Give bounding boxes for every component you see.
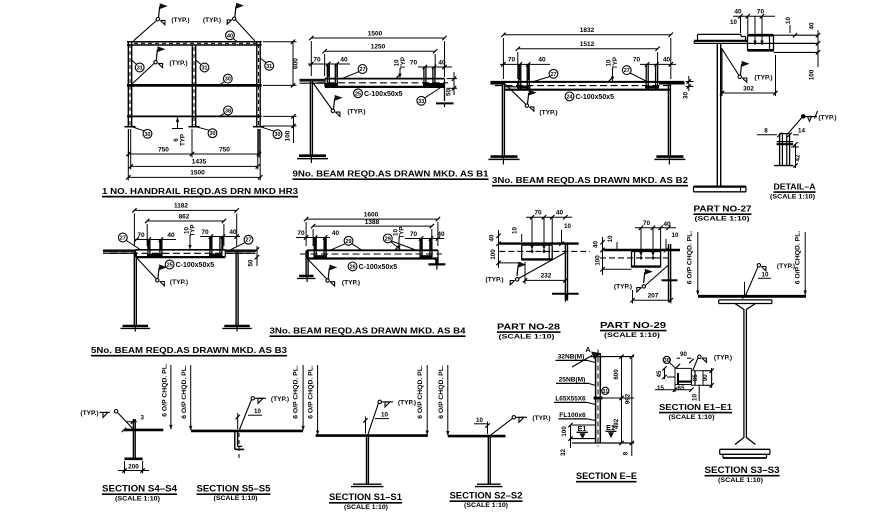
svg-text:SECTION E–E: SECTION E–E <box>576 471 637 481</box>
svg-text:200: 200 <box>128 463 139 470</box>
part 28 channel <box>521 245 523 260</box>
section S5 angle below <box>234 431 236 449</box>
svg-text:10: 10 <box>672 232 679 239</box>
balloon 30 bottom left <box>143 129 152 138</box>
dim 1435 <box>130 129 132 170</box>
svg-text:29: 29 <box>346 239 352 245</box>
svg-text:SECTION S1–S1: SECTION S1–S1 <box>329 492 402 502</box>
svg-text:(TYP.): (TYP.) <box>170 279 188 286</box>
balloon 27 B2 left <box>549 69 558 78</box>
dim 1250 beam B1 <box>324 54 326 76</box>
section S1 top plate <box>316 434 428 437</box>
svg-text:10: 10 <box>730 19 737 26</box>
column B3 right base <box>224 325 250 327</box>
svg-text:70: 70 <box>633 57 641 64</box>
svg-text:40: 40 <box>663 221 671 228</box>
weld flag typ B3 <box>136 258 156 280</box>
svg-text:70: 70 <box>534 210 542 217</box>
svg-text:50: 50 <box>248 259 255 266</box>
balloon 29 B4 right <box>383 234 392 243</box>
handrail HR3 third rail <box>127 115 262 117</box>
part 29 channel <box>631 252 633 268</box>
svg-text:31: 31 <box>137 66 143 72</box>
svg-text:70: 70 <box>410 231 418 238</box>
svg-text:1388: 1388 <box>365 219 380 226</box>
part 28 diagonal brace line <box>519 253 566 279</box>
svg-text:40: 40 <box>332 230 340 237</box>
handrail HR3 right post <box>256 42 258 128</box>
svg-text:SECTION E1–E1: SECTION E1–E1 <box>659 403 733 412</box>
svg-text:A: A <box>585 345 590 354</box>
svg-text:600: 600 <box>613 369 620 380</box>
column B4 left <box>305 250 307 275</box>
beam B1 right end support <box>444 87 446 101</box>
dim 100 right of handrail <box>263 115 297 117</box>
svg-text:70: 70 <box>757 9 765 16</box>
beam B3 left end plate <box>103 249 136 252</box>
section S5 top plate <box>191 430 303 433</box>
svg-text:600: 600 <box>293 58 300 69</box>
svg-text:862: 862 <box>179 213 190 220</box>
beam B2 stiffeners left <box>518 64 520 89</box>
svg-text:10: 10 <box>607 235 614 242</box>
svg-text:992: 992 <box>624 393 631 404</box>
svg-text:10: 10 <box>692 394 699 401</box>
dim 1500 <box>127 129 129 181</box>
column B1 left <box>309 82 311 155</box>
column B3 right <box>235 252 237 325</box>
handrail HR3 left post <box>127 42 129 128</box>
part 27 column web <box>716 43 718 186</box>
svg-text:3No. BEAM REQD.AS DRAWN MKD. A: 3No. BEAM REQD.AS DRAWN MKD. AS B2 <box>492 175 688 185</box>
dim 1500 beam B1 <box>310 41 312 76</box>
svg-text:(SCALE 1:10): (SCALE 1:10) <box>344 504 388 511</box>
svg-text:3No. BEAM REQD.AS DRAWN MKD. A: 3No. BEAM REQD.AS DRAWN MKD. AS B4 <box>270 325 466 335</box>
dim 32 section E-E <box>570 439 572 448</box>
svg-text:(TYP.): (TYP.) <box>342 280 360 287</box>
beam B3 stiffeners right <box>209 237 211 258</box>
svg-text:TYP: TYP <box>190 224 197 236</box>
svg-text:TYP: TYP <box>612 57 619 69</box>
detail A channel piece <box>779 134 781 166</box>
weld flag typ inner <box>154 61 157 64</box>
section E-E top line <box>596 356 634 358</box>
column B3 left <box>133 252 135 325</box>
column B4 right base <box>428 263 445 265</box>
svg-text:(TYP.): (TYP.) <box>398 400 416 407</box>
part 29 top plate <box>603 249 680 251</box>
svg-text:10: 10 <box>785 17 792 24</box>
weld flag typ top-right <box>233 17 236 20</box>
section E-E left step lines <box>571 424 596 426</box>
svg-text:40: 40 <box>227 33 233 39</box>
section S2 weld flag typ <box>512 416 515 419</box>
part 27 channel top extension line <box>774 34 819 36</box>
dim 207 part 29 <box>632 290 634 304</box>
svg-text:24: 24 <box>567 94 573 100</box>
svg-text:29: 29 <box>385 236 391 242</box>
svg-text:42: 42 <box>795 154 802 161</box>
dim 600 right of handrail <box>263 41 297 43</box>
dim 750 right <box>258 129 260 158</box>
svg-text:1 NO. HANDRAIL REQD.AS DRN MKD: 1 NO. HANDRAIL REQD.AS DRN MKD HR3 <box>102 186 298 196</box>
balloon 27 B2 right <box>622 66 631 75</box>
part 27 top plate <box>694 40 747 42</box>
svg-text:30: 30 <box>275 132 281 138</box>
weld flag typ detail A <box>801 115 805 119</box>
svg-text:(SCALE 1:10): (SCALE 1:10) <box>695 216 750 223</box>
svg-text:207: 207 <box>648 293 659 300</box>
section E1 plate <box>691 371 703 386</box>
svg-text:TYP: TYP <box>399 226 406 238</box>
svg-text:40: 40 <box>809 22 816 29</box>
section S3 web <box>735 304 744 445</box>
section S1 web <box>366 436 368 485</box>
dim 10 section E1 <box>698 385 700 402</box>
svg-text:70: 70 <box>508 57 516 64</box>
svg-text:40: 40 <box>538 57 546 64</box>
part 29 vertical member <box>668 244 670 302</box>
dim 750 left <box>128 129 130 158</box>
svg-text:70: 70 <box>137 232 145 239</box>
part 27 channel bottom extension line <box>774 51 819 53</box>
svg-text:40: 40 <box>167 232 175 239</box>
svg-text:27: 27 <box>624 68 630 74</box>
dim 862 beam B3 <box>146 224 148 246</box>
dim 42 detail A <box>791 146 799 148</box>
dim 1512 beam B2 <box>517 52 519 79</box>
beam B4 channel C-100x50x5 <box>307 249 438 251</box>
part 29 bolts <box>639 256 643 260</box>
svg-text:30: 30 <box>225 77 231 83</box>
svg-text:9No. BEAM REQD.AS DRAWN MKD. A: 9No. BEAM REQD.AS DRAWN MKD. AS B1 <box>293 168 489 178</box>
svg-text:90: 90 <box>703 374 709 381</box>
svg-text:45: 45 <box>656 370 663 377</box>
svg-text:32NB(M): 32NB(M) <box>558 353 585 360</box>
svg-text:27: 27 <box>360 67 366 73</box>
svg-text:(TYP.): (TYP.) <box>714 355 732 362</box>
svg-text:FL100x6: FL100x6 <box>559 412 586 419</box>
svg-text:25: 25 <box>167 263 173 269</box>
balloon 29 B4 left <box>344 236 353 245</box>
svg-text:(TYP.): (TYP.) <box>818 115 836 122</box>
dim 100 section E-E <box>570 425 572 439</box>
svg-text:DETAIL–A: DETAIL–A <box>774 181 816 191</box>
svg-text:100: 100 <box>561 426 568 437</box>
svg-text:10: 10 <box>476 417 483 424</box>
balloon 30 bottom right <box>273 130 282 139</box>
dim 70 40 right B2 <box>640 63 676 65</box>
svg-text:31: 31 <box>602 389 608 395</box>
svg-text:(TYP.): (TYP.) <box>169 60 187 67</box>
balloon 27 B3 left <box>118 233 127 242</box>
svg-text:27: 27 <box>551 72 557 78</box>
part 27 channel on top <box>748 34 774 37</box>
svg-text:C-100x50x5: C-100x50x5 <box>364 91 403 98</box>
svg-text:(SCALE 1:10): (SCALE 1:10) <box>669 414 715 421</box>
svg-text:6 O/P CHQD. PL.: 6 O/P CHQD. PL. <box>162 363 169 417</box>
section S2 top plate <box>448 435 506 438</box>
weld flag typ B1 <box>312 82 332 110</box>
balloon 25 B1 and channel label <box>354 89 363 98</box>
beam B3 stiffeners left <box>147 240 149 258</box>
svg-text:10: 10 <box>254 408 261 415</box>
svg-text:C-100x50x5: C-100x50x5 <box>359 264 398 271</box>
column B3 left base <box>123 325 149 327</box>
weld flag typ part 27 <box>722 49 739 76</box>
svg-text:100: 100 <box>285 130 292 141</box>
beam B1 left end plate <box>300 79 326 82</box>
svg-text:302: 302 <box>743 85 754 92</box>
section S4 bottom plate <box>125 457 143 460</box>
balloon 27 B3 right <box>244 235 253 244</box>
weld flag typ part 28 <box>517 265 518 276</box>
balloon 27 B1 <box>358 65 367 74</box>
part 28 bolts <box>530 249 534 253</box>
column B1 base plate <box>299 154 326 157</box>
svg-text:L65X55X6: L65X55X6 <box>555 395 586 402</box>
svg-text:1500: 1500 <box>190 170 205 177</box>
svg-text:C-100x50x5: C-100x50x5 <box>576 94 615 101</box>
part 29 cross bar <box>662 279 678 281</box>
svg-text:90: 90 <box>680 351 687 358</box>
svg-text:(TYP.): (TYP.) <box>171 17 189 24</box>
section S2 bottom flange <box>477 483 501 485</box>
column B2 left <box>501 83 503 156</box>
svg-text:(TYP.): (TYP.) <box>203 17 221 24</box>
balloon 31 right <box>265 61 274 70</box>
svg-text:70: 70 <box>313 56 321 63</box>
weld flag typ B2 <box>505 84 526 105</box>
svg-text:1250: 1250 <box>371 44 386 51</box>
svg-text:31: 31 <box>202 66 208 72</box>
svg-text:27: 27 <box>120 236 126 242</box>
dim 492 section E-E <box>621 398 623 443</box>
svg-text:31: 31 <box>266 64 272 70</box>
dim 70 40 right B4 <box>405 238 444 240</box>
svg-text:(TYP.): (TYP.) <box>347 109 365 116</box>
dim 70 40 right B3 <box>200 236 240 238</box>
section S4 web <box>132 419 134 459</box>
section E1 angle <box>675 368 691 384</box>
svg-text:33: 33 <box>418 99 424 105</box>
svg-text:PART NO-27: PART NO-27 <box>694 204 752 214</box>
dim 232 part 28 <box>524 262 526 284</box>
svg-text:40: 40 <box>593 241 600 248</box>
section E-E bottom line <box>572 442 634 444</box>
svg-text:6 O/P CHQD. PL.: 6 O/P CHQD. PL. <box>417 365 424 419</box>
svg-text:750: 750 <box>158 147 169 154</box>
weld flag typ part 29 <box>644 272 645 283</box>
balloon 31 section E-E <box>602 387 609 394</box>
svg-text:(SCALE 1:10): (SCALE 1:10) <box>770 193 815 200</box>
balloon 24 B2 and channel label <box>565 92 574 101</box>
beam B3 channel C-100x50x5 <box>136 249 226 251</box>
svg-text:40: 40 <box>556 210 564 217</box>
column B2 left base plate <box>491 155 518 158</box>
svg-text:(TYP.): (TYP.) <box>614 284 632 291</box>
svg-text:(SCALE 1:10): (SCALE 1:10) <box>499 334 555 341</box>
svg-text:(TYP.): (TYP.) <box>777 263 795 270</box>
beam B2 right end plate <box>659 81 684 85</box>
balloon 26 B4 and channel label <box>348 262 357 271</box>
dim 70 40 left B1 <box>308 63 350 65</box>
svg-text:27: 27 <box>246 238 252 244</box>
svg-text:1832: 1832 <box>580 27 595 34</box>
section E-E member <box>595 354 597 444</box>
weld flag typ top-left <box>156 18 159 21</box>
svg-text:(SCALE 1:10): (SCALE 1:10) <box>214 495 258 502</box>
dim 70 40 right B1 <box>418 66 452 68</box>
dim 600 section E-E <box>621 357 623 398</box>
svg-text:30: 30 <box>683 92 690 99</box>
svg-text:PART NO-28: PART NO-28 <box>497 321 560 331</box>
svg-text:8: 8 <box>764 128 768 135</box>
svg-text:32: 32 <box>560 449 567 456</box>
balloon 40 top rail <box>226 31 235 40</box>
svg-text:40: 40 <box>734 9 742 16</box>
svg-text:SECTION S4–S4: SECTION S4–S4 <box>102 483 177 493</box>
dim 302 part 27 <box>721 48 723 96</box>
column B4 left base <box>299 275 313 277</box>
svg-text:85: 85 <box>693 374 699 381</box>
svg-text:E1: E1 <box>606 423 615 432</box>
svg-text:(SCALE 1:10): (SCALE 1:10) <box>464 502 508 509</box>
column B2 right base plate <box>656 155 683 158</box>
dim 1832 beam B2 <box>502 38 504 79</box>
beam B4 stiffeners left <box>313 238 315 260</box>
handrail HR3 top rail <box>127 41 262 43</box>
dim 50 B1 right <box>447 78 458 80</box>
part 27 cap plate <box>698 33 742 35</box>
dim 8 section E-E <box>631 443 633 456</box>
weld flag typ B4 <box>308 260 327 280</box>
svg-text:(SCALE 1:10): (SCALE 1:10) <box>115 495 160 502</box>
svg-text:3: 3 <box>141 415 145 422</box>
section S3 top plate <box>698 295 806 298</box>
svg-text:PART NO-29: PART NO-29 <box>600 320 666 330</box>
svg-text:(TYP.): (TYP.) <box>532 415 550 422</box>
dim 200 section S4 <box>124 461 126 474</box>
svg-text:750: 750 <box>219 147 230 154</box>
svg-text:1435: 1435 <box>192 159 207 166</box>
part 29 diagonal brace line <box>645 265 668 286</box>
dim 70 40 above part 28 <box>526 216 572 218</box>
section E-E cleat <box>594 397 603 400</box>
svg-text:(TYP.): (TYP.) <box>754 75 772 82</box>
svg-text:10: 10 <box>564 223 571 230</box>
balloon 33 B1 <box>417 96 426 105</box>
beam B1 stiffeners left <box>326 64 328 87</box>
section S2 web <box>487 436 489 484</box>
dim 50 B3 right <box>256 246 258 266</box>
svg-text:5No. BEAM REQD.AS DRAWN MKD. A: 5No. BEAM REQD.AS DRAWN MKD. AS B3 <box>91 345 287 355</box>
part 28 top plate <box>499 242 578 244</box>
section E1 right dim box <box>703 370 712 372</box>
dim 1600 beam B4 <box>305 222 307 246</box>
svg-text:6 O/P CHQD. PL.: 6 O/P CHQD. PL. <box>687 231 694 285</box>
svg-text:SECTION S3–S3: SECTION S3–S3 <box>705 465 780 475</box>
beam B2 left end plate <box>491 81 505 85</box>
beam B3 right end plate <box>225 249 255 252</box>
balloon 30 section E1 <box>663 356 670 363</box>
svg-text:(TYP.): (TYP.) <box>80 410 98 417</box>
svg-text:100: 100 <box>595 255 602 266</box>
dim 30 B2 right <box>686 81 694 83</box>
section S3 bottom plate <box>723 457 767 459</box>
svg-text:70: 70 <box>410 59 418 66</box>
section S3 top flange <box>719 299 772 301</box>
svg-text:70: 70 <box>297 230 305 237</box>
svg-text:6 O/P CHQD. PL.: 6 O/P CHQD. PL. <box>293 365 300 419</box>
section S3 bottom flange <box>720 448 770 450</box>
svg-text:14: 14 <box>798 128 805 135</box>
svg-text:30: 30 <box>145 132 151 138</box>
svg-text:TYP: TYP <box>179 134 186 146</box>
column B4 right stub <box>435 259 437 265</box>
handrail HR3 mid rail <box>127 84 262 87</box>
column B2 right <box>667 83 669 156</box>
svg-text:25: 25 <box>355 91 361 97</box>
svg-text:SECTION S2–S2: SECTION S2–S2 <box>450 490 523 500</box>
handrail HR3 middle post <box>191 45 193 127</box>
svg-text:SECTION S5–S5: SECTION S5–S5 <box>197 483 271 493</box>
balloon 25 B3 and channel label <box>165 260 174 269</box>
svg-text:10: 10 <box>762 272 769 279</box>
svg-text:65: 65 <box>678 385 685 392</box>
section S5 weld flag typ <box>251 397 254 400</box>
svg-text:1600: 1600 <box>364 211 379 218</box>
svg-text:70: 70 <box>201 229 209 236</box>
dim 992 section E-E <box>631 357 633 443</box>
dim 1182 beam B3 <box>133 214 135 247</box>
dim 70 40 above part 29 <box>635 227 676 229</box>
svg-text:1182: 1182 <box>174 203 188 210</box>
balloon 38 third rail <box>224 106 233 115</box>
svg-text:10: 10 <box>381 412 388 419</box>
section S4 top plate <box>124 429 163 432</box>
handrail post bottom caps <box>125 126 136 128</box>
detail A cap plate <box>777 141 794 143</box>
svg-text:C-100x50x5: C-100x50x5 <box>176 262 215 269</box>
svg-text:100: 100 <box>490 249 497 260</box>
svg-text:(TYP.): (TYP.) <box>539 110 557 117</box>
dim 6 TYP pointer <box>177 117 179 129</box>
part 27 column bottom flange <box>694 186 747 188</box>
svg-text:(SCALE 1:10): (SCALE 1:10) <box>718 477 763 484</box>
svg-text:15: 15 <box>657 385 664 392</box>
balloon 31 left <box>135 63 144 72</box>
svg-text:(TYP.): (TYP.) <box>485 276 503 283</box>
beam B1 channel C-100x50x5 <box>325 78 445 80</box>
part 28 base tee <box>552 293 579 295</box>
svg-text:TYP: TYP <box>400 57 407 69</box>
svg-text:1512: 1512 <box>580 41 595 48</box>
section S1 weld flag typ <box>378 400 381 403</box>
svg-text:30: 30 <box>664 358 670 364</box>
balloon 30 bottom middle <box>208 129 217 138</box>
dim 70 40 left B3 <box>134 239 176 241</box>
dim 15 65 section E1 <box>655 389 675 391</box>
svg-text:40: 40 <box>489 234 496 241</box>
dim 1388 beam B4 <box>312 229 314 246</box>
section S3 weld flag typ <box>746 267 759 296</box>
beam B4 stiffeners right <box>419 239 421 260</box>
svg-text:10: 10 <box>511 227 518 234</box>
svg-text:232: 232 <box>541 273 552 280</box>
part 28 vertical member <box>564 244 566 301</box>
svg-text:6 O/P CHQD. PL.: 6 O/P CHQD. PL. <box>438 365 445 419</box>
